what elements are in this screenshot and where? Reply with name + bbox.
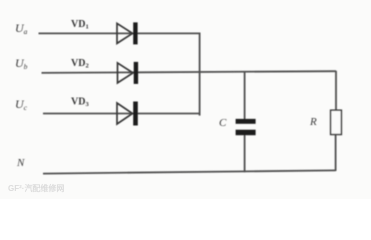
svg-text:GF²·汽配维修网: GF²·汽配维修网 (8, 183, 64, 193)
svg-text:C: C (219, 117, 227, 129)
svg-text:N: N (16, 157, 25, 169)
svg-text:R: R (309, 116, 317, 128)
